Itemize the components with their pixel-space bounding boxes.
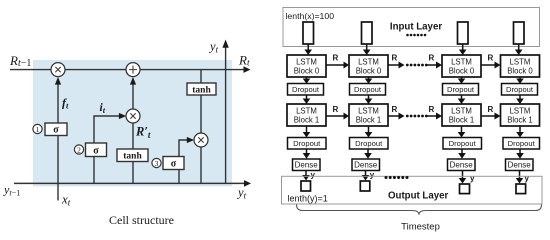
arrow block1->dropout2 col4 bbox=[516, 126, 524, 138]
svg-text:Block 0: Block 0 bbox=[294, 67, 320, 76]
arrow block0->dropout col2 bbox=[365, 77, 373, 84]
Dropout box col3 (lower) bbox=[443, 138, 482, 150]
Dropout box col4 (lower) bbox=[503, 138, 540, 150]
svg-text:yt: yt bbox=[208, 40, 219, 55]
svg-text:Cell structure: Cell structure bbox=[109, 213, 174, 227]
svg-text:lenth(y)=1: lenth(y)=1 bbox=[288, 194, 328, 204]
svg-text:Dropout: Dropout bbox=[506, 85, 534, 94]
svg-text:R: R bbox=[429, 54, 435, 63]
svg-text:R: R bbox=[488, 54, 494, 63]
Dense box col3 bbox=[448, 159, 476, 171]
output node square col4 bbox=[516, 184, 526, 194]
arrow into x3 from left bbox=[187, 137, 194, 143]
Dense box col2 bbox=[352, 159, 380, 171]
svg-text:σ: σ bbox=[93, 145, 99, 156]
gate box sigma1 bbox=[45, 123, 67, 136]
circled number 3 bbox=[152, 158, 161, 167]
Dropout box col1 (upper) bbox=[288, 84, 324, 96]
ellipsis dots block1 row bbox=[406, 115, 428, 118]
LSTM Block 0 col2 bbox=[349, 55, 388, 77]
gate box sigma3 bbox=[163, 157, 184, 170]
input node rect col4 bbox=[514, 22, 525, 44]
arrow block1 col1->col2 bbox=[326, 113, 349, 120]
svg-text:Timestep: Timestep bbox=[401, 222, 440, 233]
svg-text:Block 1: Block 1 bbox=[449, 116, 475, 125]
wire R-line tap down through tanh to x3 bbox=[200, 70, 202, 184]
svg-text:LSTM: LSTM bbox=[510, 107, 531, 116]
svg-text:tanh: tanh bbox=[123, 152, 142, 162]
Dropout box col3 (upper) bbox=[443, 84, 479, 96]
output node square col2 bbox=[360, 181, 370, 191]
svg-text:yt−1: yt−1 bbox=[3, 183, 20, 198]
gate box sigma2 bbox=[86, 143, 107, 157]
svg-text:3: 3 bbox=[155, 159, 159, 168]
svg-text:Dropout: Dropout bbox=[293, 139, 321, 148]
output node square col1 bbox=[301, 181, 311, 191]
arrow block1 col3->col4 bbox=[481, 113, 501, 120]
svg-text:Dropout: Dropout bbox=[292, 85, 320, 94]
svg-text:Dropout: Dropout bbox=[508, 139, 536, 148]
arrow input->block0 col1 bbox=[304, 44, 312, 55]
arrow input->block0 col4 bbox=[515, 44, 523, 55]
arrow block0 col3->col4 bbox=[481, 62, 501, 69]
svg-text:σ: σ bbox=[53, 125, 59, 136]
circled number 2 bbox=[74, 145, 83, 154]
LSTM Block 0 col1 bbox=[287, 55, 326, 77]
input node rect col2 bbox=[362, 22, 373, 44]
circled number 1 bbox=[33, 124, 42, 133]
svg-text:LSTM: LSTM bbox=[451, 58, 472, 67]
arrow y_t upward bbox=[222, 40, 228, 48]
Dropout box col4 (upper) bbox=[502, 84, 538, 96]
svg-text:y: y bbox=[311, 171, 316, 180]
arrow R_t (right end of top line) bbox=[244, 66, 251, 73]
arrow dots->block0 col3 bbox=[428, 62, 443, 69]
arrow block1 col2->dots bbox=[388, 113, 405, 120]
svg-text:R: R bbox=[333, 105, 339, 114]
wire bottom y line bbox=[14, 182, 245, 184]
Dropout box col1 (lower) bbox=[288, 138, 327, 150]
arrow dropout2->dense col1 bbox=[303, 149, 311, 159]
gate box tanh lower bbox=[117, 149, 148, 162]
svg-text:Block 1: Block 1 bbox=[356, 116, 382, 125]
svg-text:y: y bbox=[470, 174, 475, 183]
Dropout box col2 (upper) bbox=[350, 84, 386, 96]
svg-text:LSTM: LSTM bbox=[358, 58, 379, 67]
svg-text:yt: yt bbox=[236, 186, 247, 201]
input node rect col1 bbox=[303, 22, 314, 44]
arrow dropout->block1 col4 bbox=[516, 95, 524, 104]
arrow input->block0 col2 bbox=[363, 44, 371, 55]
svg-text:σ: σ bbox=[171, 159, 177, 170]
svg-text:y: y bbox=[370, 171, 375, 180]
input layer container bbox=[283, 8, 540, 47]
svg-text:Block 0: Block 0 bbox=[449, 67, 475, 76]
cell body (blue rectangle) bbox=[33, 60, 232, 187]
Dense box col1 bbox=[293, 159, 321, 171]
LSTM Block 0 col3 bbox=[442, 55, 481, 77]
arrow dropout2->dense col3 bbox=[458, 149, 466, 159]
svg-text:Block 0: Block 0 bbox=[507, 67, 533, 76]
arrow block0->dropout col1 bbox=[303, 77, 311, 84]
wire R line (top horizontal) bbox=[10, 69, 244, 71]
arrow dense->output col1 with y label bbox=[302, 171, 315, 181]
ellipsis dots block0 row bbox=[406, 64, 428, 67]
svg-text:Input Layer: Input Layer bbox=[390, 22, 442, 33]
svg-text:Block 0: Block 0 bbox=[356, 67, 382, 76]
input node rect col3 bbox=[458, 22, 469, 44]
Dense box col4 bbox=[506, 159, 534, 171]
LSTM Block 1 col2 bbox=[349, 104, 388, 126]
arrow dropout2->dense col2 bbox=[364, 149, 372, 159]
arrow dropout->block1 col1 bbox=[303, 95, 311, 104]
wire sigma3 branch bbox=[179, 140, 187, 183]
arrow block1->dropout2 col1 bbox=[303, 126, 311, 138]
svg-text:LSTM: LSTM bbox=[296, 107, 317, 116]
arrow into x2 from left bbox=[119, 113, 126, 119]
arrow dense->output col2 with y label bbox=[362, 171, 375, 181]
arrow block0 col2->dots bbox=[388, 62, 405, 69]
svg-text:R: R bbox=[392, 105, 398, 114]
output node square col3 bbox=[460, 184, 470, 194]
multiplier circle x3 bbox=[194, 133, 208, 147]
svg-text:LSTM: LSTM bbox=[451, 107, 472, 116]
svg-text:Dropout: Dropout bbox=[354, 85, 382, 94]
LSTM Block 1 col3 bbox=[442, 104, 481, 126]
arrow block0->dropout col4 bbox=[516, 77, 524, 84]
arrow dense->output col4 with y label bbox=[516, 171, 530, 184]
svg-text:Dense: Dense bbox=[354, 161, 378, 170]
svg-text:lenth(x)=100: lenth(x)=100 bbox=[286, 11, 335, 21]
svg-text:LSTM: LSTM bbox=[358, 107, 379, 116]
wire y_t vertical output bbox=[225, 48, 227, 184]
svg-text:tanh: tanh bbox=[192, 85, 211, 95]
LSTM Block 1 col4 bbox=[501, 104, 540, 126]
arrow block0->dropout col3 bbox=[458, 77, 466, 84]
svg-text:y: y bbox=[525, 174, 530, 183]
svg-text:R: R bbox=[392, 54, 398, 63]
svg-text:Output Layer: Output Layer bbox=[388, 190, 449, 201]
ellipsis dots output row bbox=[385, 176, 409, 179]
input layer ellipsis dots bbox=[406, 34, 426, 37]
svg-text:1: 1 bbox=[36, 125, 40, 134]
svg-text:xt: xt bbox=[61, 192, 71, 208]
svg-text:Dense: Dense bbox=[295, 161, 319, 170]
svg-text:Dropout: Dropout bbox=[355, 139, 383, 148]
Dropout box col2 (lower) bbox=[350, 138, 389, 150]
arrow into plus from below bbox=[130, 77, 136, 85]
svg-text:Block 1: Block 1 bbox=[507, 116, 533, 125]
adder circle plus bbox=[126, 63, 140, 77]
multiplier circle x2 bbox=[126, 109, 140, 123]
timestep brace bbox=[297, 205, 542, 215]
wire x_t / f_t vertical bbox=[57, 84, 59, 201]
wire center vertical (tanh - x2 - plus) bbox=[132, 84, 134, 183]
svg-text:Dense: Dense bbox=[508, 161, 532, 170]
svg-text:Block 1: Block 1 bbox=[294, 116, 320, 125]
arrow block1->dropout2 col2 bbox=[365, 126, 373, 138]
arrow dropout2->dense col4 bbox=[516, 149, 524, 159]
svg-text:LSTM: LSTM bbox=[510, 58, 531, 67]
svg-text:Dense: Dense bbox=[450, 161, 474, 170]
svg-text:Dropout: Dropout bbox=[449, 139, 477, 148]
arrow dropout->block1 col3 bbox=[458, 95, 466, 104]
arrow into x1 from below bbox=[55, 77, 61, 85]
wire i_t vertical + elbow bbox=[94, 116, 120, 183]
arrow block1->dropout2 col3 bbox=[458, 126, 466, 138]
arrow dropout->block1 col2 bbox=[365, 95, 373, 104]
arrow input->block0 col3 bbox=[459, 44, 467, 55]
arrow block0 col1->col2 bbox=[326, 62, 349, 69]
gate box tanh upper bbox=[187, 83, 216, 95]
svg-text:R: R bbox=[429, 105, 435, 114]
arrow dense->output col3 with y label bbox=[459, 171, 475, 184]
svg-text:Rt−1: Rt−1 bbox=[9, 53, 31, 69]
arrow dots->block1 col3 bbox=[428, 113, 443, 120]
multiplier circle x1 bbox=[51, 63, 65, 77]
svg-text:Dropout: Dropout bbox=[447, 85, 475, 94]
LSTM Block 0 col4 bbox=[501, 55, 540, 77]
svg-text:R: R bbox=[333, 54, 339, 63]
LSTM Block 1 col1 bbox=[287, 104, 326, 126]
svg-text:Rt: Rt bbox=[238, 53, 250, 69]
svg-text:2: 2 bbox=[77, 145, 81, 154]
svg-text:R: R bbox=[488, 105, 494, 114]
arrow bottom y_t (right end of bottom line) bbox=[244, 180, 251, 187]
svg-text:LSTM: LSTM bbox=[296, 58, 317, 67]
output layer container bbox=[282, 176, 543, 204]
